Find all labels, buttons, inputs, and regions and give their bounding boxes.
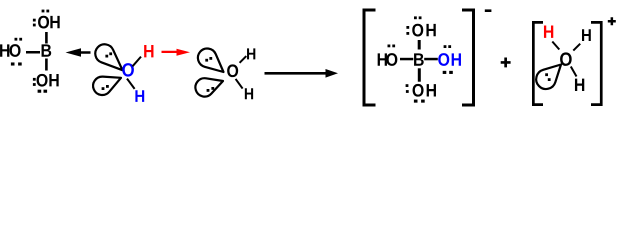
borate: bond B to right OH <box>424 58 438 61</box>
bond B to top OH <box>45 32 48 44</box>
hydronium: O atom <box>560 52 572 65</box>
hydronium: lone-pair lobe <box>536 65 561 90</box>
borate: bottom OH group <box>413 84 424 97</box>
water 2: dots in lower lobe <box>207 89 210 92</box>
water 2: lower H atom <box>245 88 253 99</box>
borate anion: left bracket <box>363 9 376 107</box>
boric acid: lone pair dots above left O <box>15 38 18 41</box>
plus sign between products <box>501 58 511 68</box>
water 1: lower H atom (blue) <box>135 90 144 102</box>
reaction arrow <box>265 69 339 78</box>
borate: left H atom <box>378 53 387 65</box>
hydronium: top right H atom <box>582 29 591 41</box>
borate: dots below right O <box>443 71 447 74</box>
borate: dots below bottom O <box>414 100 418 103</box>
left-pointing arrow from water lone pair to boron <box>66 48 91 56</box>
boric acid: top OH group <box>38 16 49 29</box>
water 2: bond O to lower H <box>236 79 243 89</box>
hydronium: right bracket <box>591 21 603 106</box>
boric acid: lone pair colon left of top O <box>33 19 36 22</box>
water 2: dots in upper lobe <box>205 59 208 62</box>
borate: right O atom (blue) <box>438 53 449 66</box>
boric acid: B atom <box>42 44 52 56</box>
bond HO to B <box>26 51 40 54</box>
water 2: lower lone-pair lobe <box>195 78 223 96</box>
borate: top OH group <box>412 24 423 37</box>
water 1: upper lone-pair lobe <box>95 44 122 70</box>
red arrow from red H to second water <box>162 49 191 56</box>
borate: dots above top O <box>414 16 417 19</box>
hydronium: bond O to bottom H <box>571 67 577 77</box>
water 1: dots in lower lobe <box>102 87 105 90</box>
hydronium: bond red H to O <box>552 42 559 50</box>
borate: left O atom <box>386 53 397 66</box>
borate anion: minus charge <box>485 9 492 12</box>
boric acid: lone pair dots below bottom O <box>38 90 42 93</box>
water 1: upper H atom (red) <box>144 45 153 57</box>
water 1: dots in upper lobe <box>105 55 108 58</box>
borate: right H atom (blue) <box>452 53 461 65</box>
water 2: upper lone-pair lobe <box>198 49 224 72</box>
hydronium: red H atom <box>544 26 553 38</box>
water 2: O atom <box>227 64 238 77</box>
water 2: upper H atom <box>247 48 255 59</box>
water 1: bond O to upper H <box>133 57 142 67</box>
water 1: lower lone-pair lobe <box>93 77 121 95</box>
water 1: O atom (blue) <box>122 63 134 76</box>
boric acid: lone pair dots below left O <box>11 62 15 65</box>
borate: dots above left O <box>388 45 391 48</box>
water 1: bond O to lower H <box>127 79 135 89</box>
hydronium: dots in lobe <box>545 73 548 76</box>
bond B to bottom OH <box>45 59 48 71</box>
borate anion: right bracket <box>462 9 475 107</box>
boric acid: bottom OH group <box>37 74 48 87</box>
hydronium: plus charge <box>608 17 616 25</box>
boric acid: left O atom <box>10 44 21 57</box>
boric acid: left H atom <box>0 44 9 56</box>
hydronium: left bracket <box>532 21 543 106</box>
hydronium: bottom H atom <box>575 79 584 91</box>
borate: colon left of bottom O <box>406 84 409 87</box>
borate: bond B to top OH <box>418 40 421 50</box>
hydronium: bond O to top right H <box>573 44 580 51</box>
borate: bond B to bottom OH <box>418 68 421 81</box>
borate: dots above right O <box>444 45 447 48</box>
water 2: bond O to upper H <box>240 56 247 63</box>
borate: B atom <box>414 53 424 65</box>
boric acid: lone pair colon left of bottom O <box>33 78 36 81</box>
borate: bond HO to B <box>400 58 413 61</box>
borate: colon left of top O <box>406 26 409 29</box>
boric acid: lone pair dots above top O <box>42 10 45 13</box>
